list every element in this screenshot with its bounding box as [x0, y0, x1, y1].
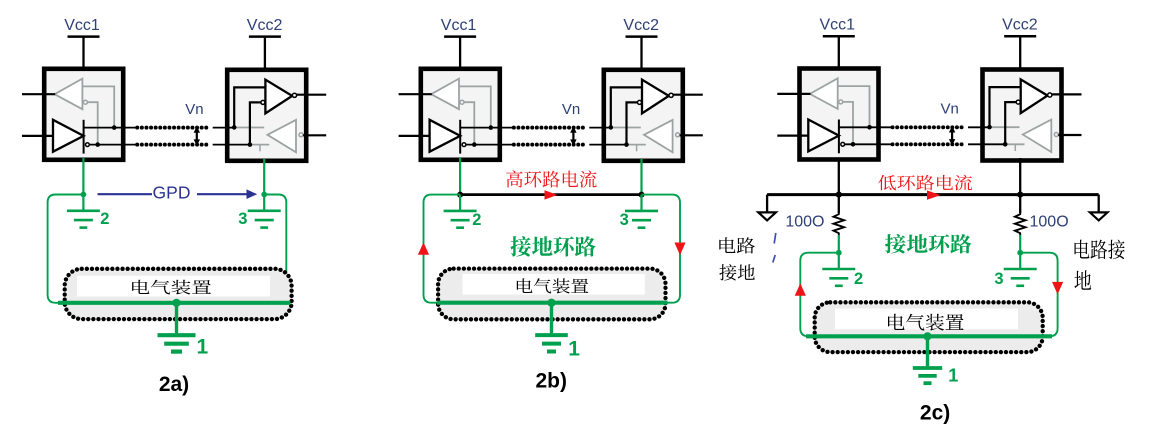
wire: R2 bottom to ground 3 [1019, 235, 1021, 253]
ground symbol 1 (safety earth) [158, 303, 196, 352]
label 地 (right, line2) [1075, 270, 1092, 290]
resistor R1 100 ohm [834, 212, 845, 235]
svg-text:2: 2 [854, 270, 863, 288]
ground loop wire (green rounded loop) [800, 253, 1057, 337]
twisted-pair bus wire with Vn noise arrow [893, 126, 964, 146]
ground interconnect wire (high loop current path) [460, 193, 641, 196]
ground symbol 2 [67, 195, 100, 228]
svg-text:1: 1 [948, 366, 958, 386]
ground symbol 3 [248, 195, 281, 228]
transceiver U3 (fig 2b left) [399, 69, 515, 160]
resistor R2 100 ohm [1015, 212, 1026, 235]
electrical device box (dotted) [815, 302, 1043, 352]
svg-text:Vn: Vn [941, 101, 959, 118]
circuit ground rail wire (low loop current path) [767, 193, 1099, 196]
svg-text:Vcc1: Vcc1 [441, 17, 477, 34]
wire: U2 ground pin 3 [263, 159, 265, 195]
node junction at ground 3 [261, 192, 267, 198]
ground symbol 1 (safety earth) [913, 336, 942, 383]
node junction left [836, 192, 842, 198]
svg-text:100O: 100O [1030, 213, 1069, 230]
ground symbol 2 [444, 195, 477, 228]
Vcc1 power rail [444, 37, 476, 70]
svg-text:Vcc2: Vcc2 [623, 17, 659, 34]
ground loop wire (green rounded loop) [424, 195, 681, 303]
svg-text:GPD: GPD [153, 183, 191, 203]
loop current arrow down (right) [1052, 282, 1063, 295]
ground bus bar through device [437, 301, 668, 305]
label 电路接 (right, line1) [1075, 240, 1125, 260]
right chassis wire drop [1098, 195, 1100, 212]
ground loop wire (green rounded loop) [48, 195, 287, 303]
label 接地环路 (ground loop) fig 2c [885, 234, 971, 253]
loop current arrow up (left) [418, 242, 429, 255]
svg-text:Vn: Vn [185, 101, 203, 118]
left circuit-ground arrow [758, 212, 776, 220]
wire: rail to R2 [1019, 195, 1021, 213]
svg-text:Vcc1: Vcc1 [820, 17, 856, 34]
transceiver U1 (fig 2a left) [22, 69, 138, 160]
svg-text:Vcc2: Vcc2 [1002, 17, 1038, 34]
device inner white strip [77, 276, 270, 297]
GPD arrow wire [98, 189, 258, 199]
stray blue mark [773, 233, 776, 263]
loop current arrow up (left) [795, 283, 806, 295]
svg-text:1: 1 [197, 336, 209, 359]
wire: U4 ground pin 3 [640, 159, 642, 195]
node junction at ground 2 [836, 250, 842, 256]
Vcc1 power rail [823, 36, 855, 69]
svg-text:Vcc2: Vcc2 [247, 17, 283, 34]
ground symbol 3 [1004, 253, 1037, 286]
twisted-pair bus wire with Vn noise arrow [137, 126, 208, 146]
svg-text:3: 3 [238, 210, 247, 228]
label 高环路电流 (high loop current) [506, 170, 596, 187]
Vcc2 power rail [626, 37, 658, 70]
svg-text:2c): 2c) [920, 402, 950, 425]
Vcc1 power rail [68, 37, 100, 70]
label 电气装置 (fig 2b) [517, 278, 589, 293]
svg-text:2b): 2b) [535, 370, 567, 393]
ground symbol 2 [822, 253, 855, 286]
wire: rail to R1 [838, 195, 840, 213]
electrical device box (dotted) [438, 269, 665, 320]
svg-text:3: 3 [994, 270, 1003, 288]
node junction on device bus [923, 332, 931, 340]
transceiver U5 (fig 2c left) [777, 69, 893, 160]
label 电气装置 (fig 2c) [888, 314, 964, 331]
wire: U3 ground pin 2 [459, 158, 461, 195]
ground bus bar through device [58, 301, 291, 305]
node junction on device bus [172, 299, 180, 307]
label 电路 (left, line1) [719, 237, 755, 253]
svg-text:Vn: Vn [562, 101, 580, 118]
wire: U5 ground pin [838, 158, 840, 195]
current direction arrow (red) [545, 190, 558, 199]
label 接地 (left, line2) [719, 264, 755, 280]
svg-text:3: 3 [620, 211, 629, 229]
transceiver U4 (fig 2b right) [589, 70, 703, 161]
electrical device box (dotted) [65, 269, 292, 319]
transceiver U6 (fig 2c right) [968, 70, 1082, 161]
node junction right [1017, 192, 1023, 198]
svg-text:1: 1 [568, 338, 580, 361]
svg-text:100O: 100O [785, 213, 824, 230]
Vcc2 power rail [1004, 36, 1036, 69]
transceiver U2 (fig 2a right) [213, 70, 327, 161]
node junction at ground 2 [81, 192, 87, 198]
ground symbol 1 (safety earth) [535, 303, 568, 352]
svg-text:2: 2 [100, 210, 109, 228]
svg-text:Vcc1: Vcc1 [64, 17, 100, 34]
node junction at ground 3 [1017, 250, 1023, 256]
device inner white strip [463, 274, 645, 295]
node junction at ground 3 [639, 192, 645, 198]
Vcc2 power rail [249, 37, 281, 70]
current direction arrow (red) [927, 190, 941, 199]
node junction on device bus [547, 299, 555, 307]
svg-text:2: 2 [472, 211, 481, 229]
right circuit-ground arrow [1090, 212, 1108, 220]
wire: U6 ground pin [1019, 158, 1021, 195]
twisted-pair bus wire with Vn noise arrow [514, 126, 585, 146]
svg-text:2a): 2a) [159, 373, 189, 396]
label 接地环路 (ground loop) fig 2b [511, 236, 596, 256]
loop current arrow down (right) [674, 243, 685, 256]
node junction at ground 2 [457, 192, 463, 198]
wire: U1 ground pin 2 [82, 158, 84, 195]
ground bus bar through device [806, 334, 1052, 338]
label 电气装置 (fig 2a) [132, 280, 211, 295]
left chassis wire drop [766, 195, 768, 212]
wire: R1 bottom to ground 2 [838, 235, 840, 253]
ground symbol 3 [625, 195, 658, 228]
device inner white strip [835, 309, 1018, 330]
label 低环路电流 (low loop current) [878, 175, 972, 191]
